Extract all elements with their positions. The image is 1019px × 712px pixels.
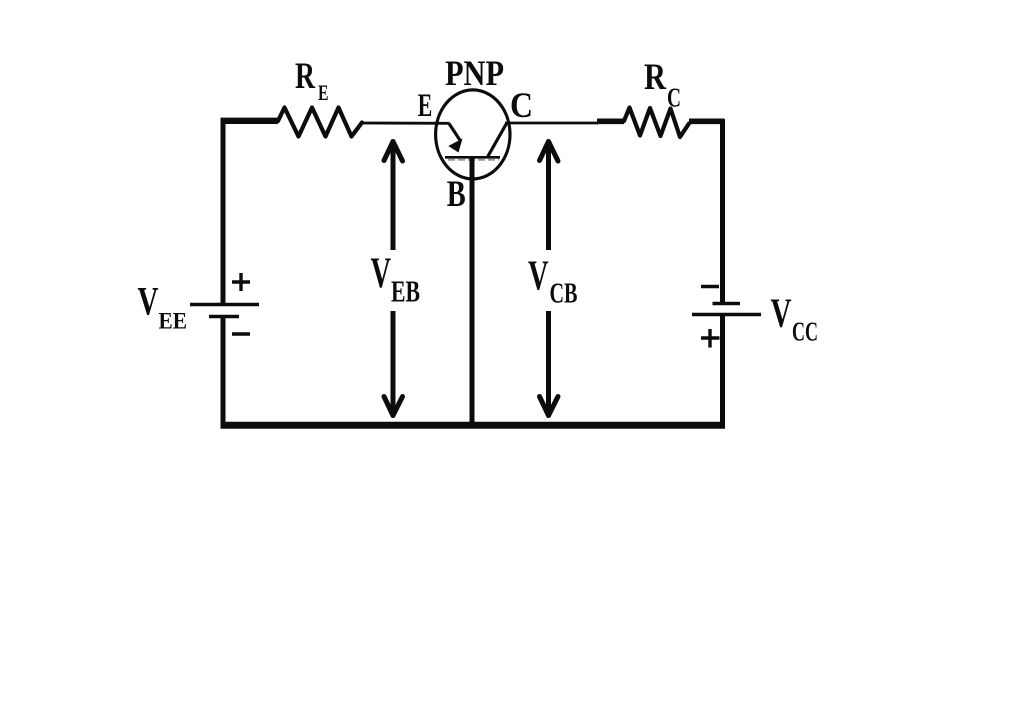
- svg-text:V: V: [371, 250, 392, 297]
- svg-text:E: E: [418, 88, 433, 124]
- svg-text:R: R: [295, 56, 316, 97]
- svg-text:C: C: [510, 85, 533, 125]
- svg-text:C: C: [667, 83, 681, 113]
- svg-text:CC: CC: [792, 317, 818, 347]
- svg-text:V: V: [771, 290, 792, 336]
- svg-text:EE: EE: [159, 309, 188, 334]
- svg-text:V: V: [528, 254, 549, 300]
- svg-text:B: B: [447, 173, 466, 214]
- svg-text:PNP: PNP: [445, 53, 504, 93]
- svg-text:R: R: [644, 57, 667, 98]
- svg-text:CB: CB: [550, 279, 578, 310]
- svg-text:E: E: [318, 80, 329, 105]
- svg-text:V: V: [138, 279, 159, 324]
- svg-text:EB: EB: [391, 274, 420, 309]
